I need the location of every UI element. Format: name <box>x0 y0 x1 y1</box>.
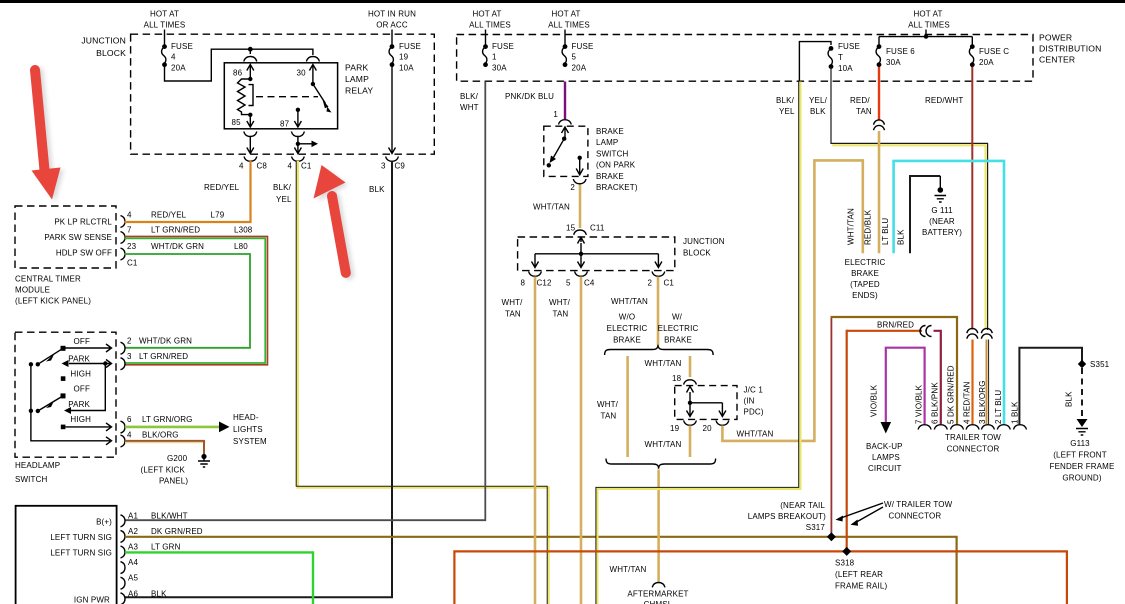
wire BLK/YEL (fuse T feed branch) down-left-down <box>597 82 800 604</box>
svg-text:YEL/: YEL/ <box>809 96 828 105</box>
svg-text:T: T <box>838 53 843 62</box>
wire BLK from C9 to A6 <box>125 161 392 597</box>
svg-text:19: 19 <box>399 53 409 62</box>
svg-text:FUSE: FUSE <box>572 42 594 51</box>
svg-text:HDLP SW OFF: HDLP SW OFF <box>56 249 112 258</box>
fuse F19 10A <box>390 44 395 49</box>
svg-text:BRN/RED: BRN/RED <box>877 321 914 330</box>
svg-text:OFF: OFF <box>74 337 90 346</box>
svg-text:SYSTEM: SYSTEM <box>233 437 267 446</box>
wire BRN/RED <box>847 330 922 332</box>
wire BLK/ORG to trailer pin 3 <box>986 340 988 425</box>
fuse FC 20A <box>970 44 975 49</box>
pin 2 row wire <box>66 344 112 352</box>
svg-text:30: 30 <box>297 69 307 78</box>
wire BLK dashed to G113 <box>1081 368 1083 418</box>
wire BLK/ORG to G200 <box>125 442 206 444</box>
connector 8 C12 cup <box>529 272 542 277</box>
svg-text:BLK: BLK <box>810 107 826 116</box>
connector 2 C1 cup <box>652 272 665 277</box>
svg-text:C11: C11 <box>590 224 605 233</box>
svg-text:C1: C1 <box>127 259 138 268</box>
svg-text:FENDER FRAME: FENDER FRAME <box>1050 462 1115 471</box>
lower curly brace <box>606 459 716 469</box>
connector 3 C9 cup <box>386 157 399 162</box>
upper curly brace <box>605 345 714 355</box>
svg-text:A6: A6 <box>128 590 138 599</box>
svg-text:HEADLAMP: HEADLAMP <box>15 461 60 470</box>
wire LT GRN/ORG to headlights <box>125 426 219 429</box>
svg-text:5: 5 <box>572 53 577 62</box>
headlamp switch dashed box <box>15 332 116 457</box>
brake switch fixed terminal pin 2 <box>578 156 582 160</box>
fuse F4 20A <box>162 44 167 49</box>
svg-text:HIGH: HIGH <box>70 415 91 424</box>
svg-text:POWER: POWER <box>1039 33 1072 43</box>
svg-text:30A: 30A <box>492 64 507 73</box>
svg-text:HOT AT: HOT AT <box>150 10 179 19</box>
svg-text:PARK: PARK <box>68 400 90 409</box>
svg-text:BLOCK: BLOCK <box>96 48 126 58</box>
wire WHT/TAN below brace to aftermarket <box>657 470 660 583</box>
svg-text:ALL TIMES: ALL TIMES <box>548 21 590 30</box>
svg-text:SWITCH: SWITCH <box>596 149 629 158</box>
fuse F5 20A <box>563 44 568 49</box>
svg-text:4: 4 <box>127 211 132 220</box>
aftermarket connector bracket <box>652 583 665 588</box>
svg-text:OFF: OFF <box>74 385 90 394</box>
wire 85 to C8 pin <box>247 137 254 154</box>
relay coil (resistor) <box>248 77 252 81</box>
pin A2 bracket <box>121 530 126 542</box>
wire LT GRN/RED L308 (red+green pair) <box>125 236 268 364</box>
svg-text:4: 4 <box>171 53 176 62</box>
pin 85 lower bracket <box>244 132 257 137</box>
svg-text:PARK: PARK <box>68 355 90 364</box>
svg-text:HOT IN RUN: HOT IN RUN <box>368 10 416 19</box>
svg-text:7: 7 <box>127 226 132 235</box>
svg-text:C9: C9 <box>395 162 406 171</box>
svg-text:IGN PWR: IGN PWR <box>74 596 110 604</box>
svg-text:TRAILER TOW: TRAILER TOW <box>945 433 1001 442</box>
top border line <box>0 0 1125 3</box>
svg-text:A1: A1 <box>128 512 138 521</box>
svg-text:20A: 20A <box>979 58 994 67</box>
svg-text:BLK/WHT: BLK/WHT <box>151 512 188 521</box>
svg-text:6 BLK/PNK: 6 BLK/PNK <box>931 382 940 424</box>
wire DK GRN/RED riser (S317 to pin 5 run) <box>830 318 832 537</box>
svg-text:RED/BLK: RED/BLK <box>864 209 873 245</box>
pin 30 connector bracket <box>306 57 319 62</box>
red arrow 2 (to connector C1) <box>314 165 346 273</box>
wire 87 to C1 pin with branch arrow <box>294 137 301 154</box>
svg-text:ALL TIMES: ALL TIMES <box>144 21 186 30</box>
wire DK GRN/RED A2 long run <box>125 537 957 604</box>
svg-text:WHT/TAN: WHT/TAN <box>611 297 648 306</box>
pin A3 bracket <box>121 546 126 558</box>
svg-text:A3: A3 <box>128 543 138 552</box>
svg-text:20: 20 <box>703 424 713 433</box>
svg-text:1 BLK: 1 BLK <box>1011 401 1020 424</box>
pin 4 row arrow <box>106 437 112 445</box>
svg-text:WHT/TAN: WHT/TAN <box>645 359 682 368</box>
svg-text:ALL TIMES: ALL TIMES <box>469 21 511 30</box>
svg-text:C1: C1 <box>301 162 312 171</box>
svg-text:ELECTRIC: ELECTRIC <box>845 258 886 267</box>
svg-text:BLOCK: BLOCK <box>683 249 711 258</box>
svg-text:PNK/DK BLU: PNK/DK BLU <box>505 92 554 101</box>
junction connector J/C 1 dashed box <box>675 386 737 420</box>
PDC dashed box <box>457 35 1033 82</box>
connector 5 C4 cup <box>575 272 588 277</box>
svg-text:AFTERMARKET: AFTERMARKET <box>627 590 688 599</box>
svg-text:W/: W/ <box>672 313 683 322</box>
svg-text:30A: 30A <box>886 58 901 67</box>
contact square HIGH upper <box>61 376 66 381</box>
svg-text:PANEL): PANEL) <box>159 477 188 486</box>
svg-text:WHT/TAN: WHT/TAN <box>847 208 856 245</box>
svg-text:SWITCH: SWITCH <box>15 475 48 484</box>
pin A5 bracket <box>121 577 126 589</box>
svg-text:18: 18 <box>672 374 682 383</box>
svg-text:CONNECTOR: CONNECTOR <box>889 512 942 521</box>
svg-text:G 111: G 111 <box>931 206 953 215</box>
svg-text:YEL: YEL <box>779 107 795 116</box>
svg-text:JUNCTION: JUNCTION <box>683 237 725 246</box>
svg-text:BLK: BLK <box>897 229 906 245</box>
ground G200 <box>201 454 206 459</box>
svg-text:J/C 1: J/C 1 <box>744 386 764 395</box>
relay pin 87 <box>296 108 300 112</box>
svg-text:HOT AT: HOT AT <box>551 10 580 19</box>
brake lamp switch dashed box <box>544 126 588 176</box>
svg-text:BRAKE: BRAKE <box>613 336 641 345</box>
connector 4 C1 cup <box>292 157 305 162</box>
svg-text:TAN: TAN <box>856 107 872 116</box>
svg-text:4: 4 <box>239 162 244 171</box>
svg-text:20A: 20A <box>572 64 587 73</box>
junction block 2 dashed box <box>518 237 675 271</box>
svg-text:(ON PARK: (ON PARK <box>596 161 636 170</box>
svg-text:23: 23 <box>127 242 137 251</box>
svg-text:15: 15 <box>566 224 576 233</box>
junction block 1 dashed box <box>131 34 435 154</box>
svg-text:BATTERY): BATTERY) <box>922 228 962 237</box>
wire WHT/TAN pin2 to C11 <box>579 185 582 229</box>
svg-text:FUSE: FUSE <box>399 42 421 51</box>
inline connector below fuse 6 <box>874 120 885 125</box>
relay K1 PARK LAMP RELAY box <box>224 63 337 129</box>
svg-text:1: 1 <box>492 53 497 62</box>
svg-text:C12: C12 <box>537 279 553 288</box>
wire WHT/TAN pin 8 C12 to bottom <box>534 277 537 604</box>
svg-text:BLK/: BLK/ <box>273 183 292 192</box>
svg-text:C1: C1 <box>664 279 675 288</box>
svg-text:LT GRN: LT GRN <box>151 543 181 552</box>
svg-text:BRAKE: BRAKE <box>664 336 692 345</box>
svg-text:LT GRN/ORG: LT GRN/ORG <box>142 415 193 424</box>
svg-text:(TAPED: (TAPED <box>850 280 880 289</box>
svg-text:CIRCUIT: CIRCUIT <box>868 464 902 473</box>
switch wiper 1 <box>38 348 63 364</box>
wire WHT/TAN pin 5 C4 to bottom <box>580 277 583 604</box>
node S317 <box>827 532 836 541</box>
ground G111 <box>939 176 941 188</box>
svg-text:LT GRN/RED: LT GRN/RED <box>151 226 200 235</box>
svg-text:FUSE: FUSE <box>171 42 193 51</box>
svg-text:YEL: YEL <box>276 195 292 204</box>
node junction dot feed pin 86 <box>248 47 253 52</box>
pin A4 bracket <box>121 562 126 574</box>
svg-text:L79: L79 <box>211 211 225 220</box>
svg-text:10A: 10A <box>838 64 853 73</box>
wire WHT/TAN pin 2 C1 to brake split <box>657 277 660 346</box>
svg-text:OR ACC: OR ACC <box>376 21 408 30</box>
svg-text:TAN: TAN <box>505 310 521 319</box>
svg-text:PK LP RLCTRL: PK LP RLCTRL <box>54 218 112 227</box>
turn signal module box <box>16 506 117 604</box>
svg-text:G113: G113 <box>1070 439 1090 448</box>
pin 87 lower bracket <box>291 132 304 137</box>
svg-text:3: 3 <box>381 162 386 171</box>
svg-text:3 BLK/ORG: 3 BLK/ORG <box>978 380 987 424</box>
svg-text:GROUND): GROUND) <box>1062 474 1101 483</box>
wire BLK/PNK to trailer pin 6 <box>934 331 941 424</box>
svg-text:W/ TRAILER TOW: W/ TRAILER TOW <box>884 500 953 509</box>
pin 4 bracket <box>121 216 126 228</box>
svg-text:RED/WHT: RED/WHT <box>925 96 963 105</box>
svg-text:ELECTRIC: ELECTRIC <box>658 324 699 333</box>
svg-text:FUSE C: FUSE C <box>979 47 1009 56</box>
svg-text:RED/: RED/ <box>850 96 870 105</box>
fuse F6 30A <box>877 44 882 49</box>
svg-text:WHT/: WHT/ <box>597 400 619 409</box>
wire WHT/TAN pin 20 to electric brake riser <box>722 160 862 441</box>
relay pin 85 arrow down <box>247 115 254 127</box>
wire BLK/WHT from fuse 1 to A1 <box>125 82 485 521</box>
wire LT BLU cyan <box>894 161 1004 424</box>
svg-text:C8: C8 <box>257 162 268 171</box>
svg-text:WHT/TAN: WHT/TAN <box>645 440 682 449</box>
svg-text:WHT/: WHT/ <box>502 298 524 307</box>
svg-text:S318: S318 <box>835 559 855 568</box>
svg-text:3: 3 <box>127 352 132 361</box>
connector 20 cup <box>716 421 729 426</box>
svg-text:L308: L308 <box>234 226 253 235</box>
svg-text:20A: 20A <box>171 64 186 73</box>
svg-text:(NEAR: (NEAR <box>929 217 955 226</box>
svg-text:DISTRIBUTION: DISTRIBUTION <box>1039 44 1101 54</box>
pin 3 row wire with park link <box>69 360 112 368</box>
svg-text:WHT/DK GRN: WHT/DK GRN <box>151 242 204 251</box>
svg-text:BRAKE: BRAKE <box>596 127 624 136</box>
pin 86 connector bracket <box>244 57 257 62</box>
svg-text:VIO/BLK: VIO/BLK <box>870 384 879 417</box>
svg-text:HOT AT: HOT AT <box>472 10 501 19</box>
connector 4 C8 cup <box>244 157 257 162</box>
pin A6 bracket <box>121 593 126 604</box>
svg-text:2: 2 <box>127 337 132 346</box>
wire BLK/YEL from C1 to bottom <box>298 161 549 604</box>
svg-text:CENTRAL TIMER: CENTRAL TIMER <box>15 275 81 284</box>
inline connector BRN/RED to BLK/PNK <box>920 326 925 337</box>
contact square HIGH lower (pin6) <box>61 425 66 430</box>
fuse F1 30A <box>483 44 488 49</box>
wire fuse19 to C9 <box>389 65 396 154</box>
svg-text:1: 1 <box>553 110 558 119</box>
svg-text:RELAY: RELAY <box>345 86 373 96</box>
svg-text:ELECTRIC: ELECTRIC <box>607 324 648 333</box>
svg-text:WHT: WHT <box>460 103 479 112</box>
connector 19 cup <box>684 421 697 426</box>
svg-text:HOT AT: HOT AT <box>913 10 942 19</box>
fuse FT 10A with feed wire <box>799 42 831 82</box>
svg-text:(LEFT FRONT: (LEFT FRONT <box>1053 451 1107 460</box>
svg-text:(LEFT KICK PANEL): (LEFT KICK PANEL) <box>15 297 91 306</box>
svg-text:LT BLU: LT BLU <box>881 218 890 245</box>
svg-text:BLK: BLK <box>151 590 167 599</box>
wire PNK/DK BLU from fuse 5 <box>564 82 566 120</box>
relay pin 30 arrow up <box>309 65 316 85</box>
node S351 <box>1078 360 1086 368</box>
svg-text:2: 2 <box>570 183 575 192</box>
J/C1 internal wires <box>687 386 694 403</box>
svg-text:HEAD-: HEAD- <box>233 413 259 422</box>
pin 23 bracket <box>121 248 126 260</box>
svg-text:FRAME RAIL): FRAME RAIL) <box>835 582 888 591</box>
svg-text:BLK/: BLK/ <box>776 96 795 105</box>
svg-text:BLK/: BLK/ <box>460 92 479 101</box>
svg-text:WHT/TAN: WHT/TAN <box>737 430 774 439</box>
svg-text:WHT/: WHT/ <box>549 298 571 307</box>
svg-text:HIGH: HIGH <box>70 370 91 379</box>
inline connector on RED/WHT <box>967 328 978 333</box>
svg-text:L80: L80 <box>234 242 248 251</box>
brake switch contact arm <box>562 127 569 139</box>
svg-text:LAMPS BREAKOUT): LAMPS BREAKOUT) <box>748 512 826 521</box>
svg-text:BLK: BLK <box>1065 391 1074 407</box>
svg-text:C4: C4 <box>584 279 595 288</box>
wire BLK trailer pin 1 to S351 <box>1019 348 1082 424</box>
wire fuse4 to relay top <box>165 49 313 81</box>
svg-text:PARK SW SENSE: PARK SW SENSE <box>44 233 112 242</box>
svg-text:BRACKET): BRACKET) <box>596 183 638 192</box>
svg-text:(NEAR TAIL: (NEAR TAIL <box>780 501 825 510</box>
relay pin 86 arrow up <box>247 65 254 80</box>
svg-text:LAMPS: LAMPS <box>872 453 900 462</box>
pin A1 bracket <box>121 515 126 527</box>
svg-text:FUSE: FUSE <box>492 42 514 51</box>
svg-text:10A: 10A <box>399 64 414 73</box>
trailer tow connector pin cups <box>918 425 931 430</box>
wire BLK to G111 <box>910 176 940 253</box>
svg-text:B(+): B(+) <box>96 518 112 527</box>
relay switch contact from pin 30 <box>311 82 315 86</box>
ground G113 <box>1077 419 1088 427</box>
wire RED/BLK taped end <box>878 131 881 253</box>
svg-text:LAMP: LAMP <box>345 74 369 84</box>
svg-text:W/O: W/O <box>619 313 635 322</box>
svg-text:ALL TIMES: ALL TIMES <box>908 21 950 30</box>
svg-text:CONNECTOR: CONNECTOR <box>947 445 1000 454</box>
svg-text:RED/YEL: RED/YEL <box>204 183 240 192</box>
wire WHT/TAN w/o electric brake column <box>626 356 629 457</box>
svg-text:85: 85 <box>232 118 242 127</box>
switch common wire to pin 4 <box>31 364 110 441</box>
svg-text:87: 87 <box>280 120 290 129</box>
svg-text:2: 2 <box>648 279 653 288</box>
wire VIO/BLK trailer pin 7 and backup branch <box>886 348 925 424</box>
svg-text:BLK/ORG: BLK/ORG <box>142 431 179 440</box>
wire LT GRN A3 <box>125 552 313 604</box>
svg-text:CHMSL: CHMSL <box>644 600 673 604</box>
pin 7 bracket <box>121 232 126 244</box>
svg-text:5: 5 <box>566 279 571 288</box>
svg-text:JUNCTION: JUNCTION <box>81 36 126 46</box>
svg-text:19: 19 <box>670 424 680 433</box>
pin 1 bracket <box>559 120 572 125</box>
headlamp pin brackets <box>121 342 126 354</box>
svg-text:G200: G200 <box>167 454 188 463</box>
wire WHT/TAN pin 19 down to brace <box>689 426 692 458</box>
svg-text:LAMP: LAMP <box>596 138 618 147</box>
wire YEL/BLK from fuse T <box>831 67 988 330</box>
svg-text:8: 8 <box>521 279 526 288</box>
svg-text:TAN: TAN <box>553 310 569 319</box>
svg-text:BRAKE: BRAKE <box>596 172 624 181</box>
relay dashed actuator link <box>256 96 318 98</box>
svg-text:5 DK GRN/RED: 5 DK GRN/RED <box>947 365 956 424</box>
svg-text:4: 4 <box>288 162 293 171</box>
wire WHT/DK GRN L80 <box>125 254 251 348</box>
svg-text:CENTER: CENTER <box>1039 55 1075 65</box>
svg-text:2 LT BLU: 2 LT BLU <box>994 390 1003 424</box>
svg-text:FUSE: FUSE <box>838 42 860 51</box>
svg-text:4 RED/TAN: 4 RED/TAN <box>963 381 972 424</box>
svg-text:PARK: PARK <box>345 63 368 73</box>
svg-text:LEFT TURN SIG: LEFT TURN SIG <box>50 549 112 558</box>
svg-text:WHT/TAN: WHT/TAN <box>533 203 570 212</box>
svg-text:(IN: (IN <box>744 397 755 406</box>
svg-text:TAN: TAN <box>601 412 617 421</box>
svg-text:MODULE: MODULE <box>15 286 50 295</box>
switch wiper 2 <box>38 396 63 411</box>
svg-text:(LEFT KICK: (LEFT KICK <box>141 466 186 475</box>
svg-text:6: 6 <box>127 415 132 424</box>
svg-text:DK GRN/RED: DK GRN/RED <box>151 527 203 536</box>
svg-text:A5: A5 <box>128 574 138 583</box>
svg-text:4: 4 <box>127 431 132 440</box>
red arrow 1 (to central timer module) <box>32 70 61 200</box>
svg-text:WHT/TAN: WHT/TAN <box>610 565 647 574</box>
node S318 <box>842 547 851 556</box>
svg-text:S351: S351 <box>1090 360 1110 369</box>
svg-text:PDC): PDC) <box>744 408 764 417</box>
svg-text:LEFT TURN SIG: LEFT TURN SIG <box>50 533 112 542</box>
svg-text:86: 86 <box>233 69 243 78</box>
svg-text:A2: A2 <box>128 527 138 536</box>
wire RED/TAN from fuse 6 <box>878 67 880 121</box>
svg-text:WHT/DK GRN: WHT/DK GRN <box>139 337 192 346</box>
svg-text:FUSE 6: FUSE 6 <box>886 47 915 56</box>
svg-text:BLK: BLK <box>369 185 385 194</box>
wire WHT/TAN w/ electric brake column to pin 18 <box>689 356 692 377</box>
wire RED/YEL L79 <box>125 161 251 222</box>
inline connector on YEL/BLK to BLK/ORG <box>981 328 992 333</box>
svg-text:ENDS): ENDS) <box>852 291 878 300</box>
wire RED/WHT from fuse C <box>971 67 973 330</box>
pin 6 row wire <box>66 423 112 431</box>
